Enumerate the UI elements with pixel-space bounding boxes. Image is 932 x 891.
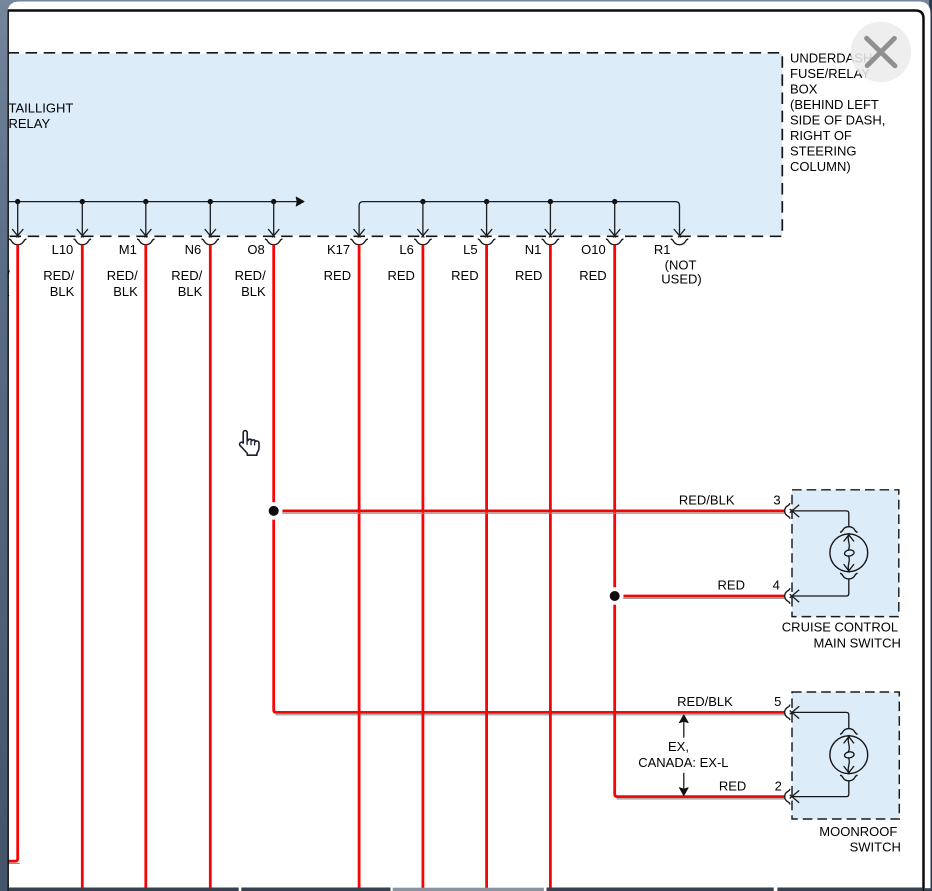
svg-text:RED: RED <box>515 268 542 283</box>
svg-text:M1: M1 <box>119 242 137 257</box>
shadow under pin3 red/blk horizontal <box>276 512 785 514</box>
svg-text:RED/: RED/ <box>43 268 74 283</box>
pin 3 connector cup <box>785 503 790 519</box>
red/blk wire branch O8 to cruise pin 3 <box>274 509 785 512</box>
svg-text:RED: RED <box>324 268 351 283</box>
bus 1 junction node at x=273.7 <box>271 199 276 204</box>
svg-text:4: 4 <box>773 578 780 593</box>
red wire L5 vertical <box>485 245 488 889</box>
underdash fuse/relay box U1 dashed border <box>8 53 783 237</box>
svg-text:O10: O10 <box>581 242 606 257</box>
wire drop from bus to terminal O10 <box>614 202 616 235</box>
arrowhead into terminal L5 <box>481 229 492 237</box>
bus 2 junction node at x=422.9 <box>420 199 425 204</box>
lower arrowhead (down, filled) <box>679 788 688 796</box>
upper arrowhead (up, filled) <box>679 715 688 723</box>
svg-text:RED/: RED/ <box>107 268 138 283</box>
arrowhead into terminal N6 <box>205 229 216 237</box>
svg-text:BLK: BLK <box>50 284 75 299</box>
wire drop from bus to terminal O8 <box>273 202 275 235</box>
bottom right gutter bar <box>925 888 931 891</box>
pin 5 connector cup <box>785 705 790 721</box>
lamp cruise switch illumination bottom arrowhead (down) <box>844 564 854 572</box>
lamp moonroof switch illumination bottom collar <box>840 775 858 781</box>
connector cup terminal O8 <box>265 239 283 245</box>
bottom component bar D <box>547 888 774 891</box>
svg-text:RED/: RED/ <box>171 268 202 283</box>
schematic sheet border frame left <box>7 10 9 891</box>
pin 2 connector arrowhead <box>790 790 800 802</box>
red wire L10 vertical <box>81 245 84 889</box>
svg-text:EX,: EX, <box>668 739 689 754</box>
svg-text:O8: O8 <box>247 242 264 257</box>
pin 3 internal wire <box>791 511 849 527</box>
wire drop from bus to terminal L10 <box>81 202 83 235</box>
bus 1 arrowhead right (filled) <box>296 197 304 206</box>
svg-text:RIGHT OF: RIGHT OF <box>790 128 852 143</box>
wire drop from bus to terminal N1 <box>549 202 551 235</box>
arrowhead into terminal leftmost (clipped) <box>12 229 23 237</box>
bus 2 junction node at x=550.4 <box>548 199 553 204</box>
svg-text:TAILLIGHT: TAILLIGHT <box>9 100 74 115</box>
connector cup terminal N1 <box>542 239 560 245</box>
cruise control main switch S1 dashed border <box>792 490 899 617</box>
svg-text:R1: R1 <box>654 242 671 257</box>
svg-text:USED): USED) <box>661 271 701 286</box>
wire bus 2 (right group) with end drops K17 and R1 <box>359 202 679 235</box>
shadow under leftmost red wire bottom segment <box>8 862 20 864</box>
shadow under pin2 red horizontal <box>617 798 785 800</box>
arrowhead into terminal N1 <box>545 229 556 237</box>
pin 3 connector arrowhead <box>790 505 800 517</box>
wire drop from bus to terminal N6 <box>209 202 211 235</box>
svg-text:5: 5 <box>774 694 781 709</box>
svg-text:RELAY: RELAY <box>9 116 51 131</box>
wire drop from bus to terminal L6 <box>422 202 424 235</box>
bottom component bar C (light) <box>393 888 544 891</box>
svg-text:L6: L6 <box>399 242 413 257</box>
svg-text:BLK: BLK <box>113 284 138 299</box>
underdash fuse/relay box U1 fill <box>8 54 783 236</box>
junction node on O10 wire at pin4 branch (white halo) <box>606 587 624 605</box>
red wire leftmost vertical with off-page turn at bottom <box>8 245 18 862</box>
lamp cruise switch illumination top collar <box>840 527 858 533</box>
bottom component bar A <box>9 888 239 891</box>
svg-text:RED: RED <box>387 268 414 283</box>
svg-text:RED: RED <box>451 268 478 283</box>
connector cup terminal K17 <box>350 239 368 245</box>
lamp cruise switch illumination top arrowhead (up) <box>844 533 854 541</box>
svg-text:STEERING: STEERING <box>790 143 856 158</box>
svg-text:N1: N1 <box>525 242 542 257</box>
wire bus 1 (left group) <box>8 201 299 203</box>
red wire M1 vertical <box>144 245 147 889</box>
connector cup terminal L10 <box>74 239 92 245</box>
pin 2 connector cup <box>785 789 790 805</box>
app window right edge <box>929 0 932 891</box>
svg-text:SIDE OF DASH,: SIDE OF DASH, <box>790 112 885 127</box>
trim annotation double-headed arrow upper segment <box>683 717 685 738</box>
wire drop from bus to terminal L5 <box>486 202 488 235</box>
lamp moonroof switch illumination bottom arrowhead (down) <box>844 766 854 774</box>
bus 1 junction node at x=145.8 <box>143 199 148 204</box>
red wire N6 vertical <box>209 245 212 889</box>
svg-text:COLUMN): COLUMN) <box>790 159 851 174</box>
moonroof switch S2 dashed border <box>792 692 899 819</box>
pin 2 internal wire <box>791 781 849 797</box>
wire drop from bus to terminal M1 <box>145 202 147 235</box>
junction node on O8 wire at pin3 branch (white halo) <box>265 502 283 520</box>
svg-text:CRUISE CONTROL: CRUISE CONTROL <box>782 620 898 635</box>
svg-text:K17: K17 <box>327 242 350 257</box>
svg-text:BLK: BLK <box>178 284 203 299</box>
red wire L6 vertical <box>421 245 424 889</box>
pin 4 connector arrowhead <box>790 590 800 602</box>
arrowhead into terminal O10 <box>609 229 620 237</box>
arrowhead into terminal M1 <box>140 229 151 237</box>
svg-text:SWITCH: SWITCH <box>850 840 901 855</box>
svg-text:BLK: BLK <box>241 284 266 299</box>
svg-text:RED/: RED/ <box>0 268 10 283</box>
connector cup terminal leftmost (clipped) <box>9 239 27 245</box>
shadow under pin5 red/blk horizontal <box>276 714 785 716</box>
connector cup terminal L6 <box>414 239 432 245</box>
svg-text:MAIN SWITCH: MAIN SWITCH <box>814 636 901 651</box>
close (X) button <box>851 22 911 82</box>
svg-text:BLK: BLK <box>0 284 10 299</box>
red wire O8 vertical turning right to moonroof pin 5 <box>274 245 785 713</box>
connector cup terminal O10 <box>606 239 624 245</box>
lamp moonroof switch illumination top collar <box>840 729 858 735</box>
pin 4 connector cup <box>785 588 790 604</box>
svg-text:L10: L10 <box>52 242 74 257</box>
svg-text:BOX: BOX <box>790 81 818 96</box>
bus 1 junction node at x=17.7 <box>15 199 20 204</box>
bottom component bar B <box>241 888 390 891</box>
arrowhead into terminal K17 <box>354 229 365 237</box>
svg-text:RED/BLK: RED/BLK <box>677 694 733 709</box>
bus 1 junction node at x=82.3 <box>80 199 85 204</box>
svg-text:(NOT: (NOT <box>665 258 697 273</box>
moonroof switch S2 box fill <box>792 692 899 819</box>
svg-text:(BEHIND LEFT: (BEHIND LEFT <box>790 97 879 112</box>
arrowhead into terminal R1 <box>674 229 685 237</box>
lamp moonroof switch illumination filament <box>848 736 849 752</box>
svg-text:RED: RED <box>718 578 745 593</box>
svg-text:N6: N6 <box>185 242 202 257</box>
svg-text:L5: L5 <box>463 242 477 257</box>
bottom component bar E <box>777 888 922 891</box>
shadow under pin4 red horizontal <box>617 597 785 599</box>
svg-text:RED/: RED/ <box>235 268 266 283</box>
svg-text:3: 3 <box>773 493 780 508</box>
pin 5 internal wire <box>791 712 849 728</box>
arrowhead into terminal L6 <box>417 229 428 237</box>
lamp cruise switch illumination bottom collar <box>840 573 858 579</box>
pin 4 internal wire <box>791 579 849 596</box>
connector cup terminal M1 <box>137 239 155 245</box>
red wire K17 vertical <box>358 245 361 889</box>
connector cup terminal R1 <box>671 239 689 245</box>
svg-text:RED/BLK: RED/BLK <box>679 493 735 508</box>
red wire O10 vertical turning right to moonroof pin 2 <box>615 245 785 797</box>
arrowhead into terminal L10 <box>77 229 88 237</box>
red wire branch O10 to cruise pin 4 <box>615 595 785 598</box>
connector cup terminal L5 <box>478 239 496 245</box>
svg-text:CANADA: EX-L: CANADA: EX-L <box>638 755 728 770</box>
svg-text:RED: RED <box>579 268 606 283</box>
red wire N1 vertical <box>549 245 552 889</box>
trim annotation double-headed arrow lower segment <box>683 773 685 794</box>
svg-text:MOONROOF: MOONROOF <box>819 824 897 839</box>
lamp bulb moonroof switch illumination circle <box>830 736 868 774</box>
bus 2 junction node at x=486.6 <box>484 199 489 204</box>
cruise control main switch S1 box fill <box>792 490 899 617</box>
arrowhead into terminal O8 <box>268 229 279 237</box>
bus 1 junction node at x=210.3 <box>208 199 213 204</box>
bus 2 junction node at x=614.7 <box>612 199 617 204</box>
mouse hand cursor <box>240 431 259 456</box>
lamp cruise switch illumination filament <box>848 534 849 550</box>
lamp moonroof switch illumination top arrowhead (up) <box>844 735 854 743</box>
lamp bulb cruise switch illumination circle <box>830 534 868 572</box>
wire drop from bus to terminal leftmost (clipped) <box>17 202 19 235</box>
connector cup terminal N6 <box>202 239 220 245</box>
svg-text:RED: RED <box>719 778 746 793</box>
svg-text:2: 2 <box>775 778 782 793</box>
pin 5 connector arrowhead <box>790 706 800 718</box>
